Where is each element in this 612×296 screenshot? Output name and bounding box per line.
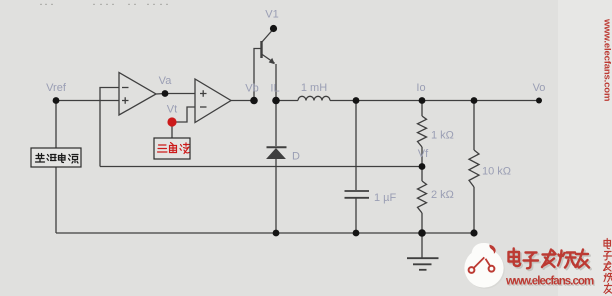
wire op-amp2 output to Vb node [231,100,254,102]
node Va [162,90,169,97]
wire 10k resistor to bottom rail [473,187,475,233]
watermark vertical CJK right edge 电子发烧友 [604,239,612,294]
wire cap column lower [355,199,357,234]
wire feedback riser to inverting input [100,88,119,167]
wire emitter down to IL node [275,64,277,101]
wire Vref to op-amp + input [56,100,119,102]
svg-text:1 kΩ: 1 kΩ [431,130,454,142]
wire Vb node up to transistor base [254,49,261,101]
node diode bottom rail [273,230,280,237]
wire feedback rail Vf to op-amp [100,166,422,168]
node V1 collector [270,25,277,32]
watermark flame tip [472,243,497,255]
resistor 1 kohm zigzag [418,116,427,147]
watermark logo circle [464,243,504,289]
triangle-wave box 三角波 [154,138,190,159]
wire Vref node down to reference box [55,101,57,149]
ground symbol [407,258,439,270]
terminal Vo [536,98,542,104]
node Vb [250,97,258,105]
wire Vt node down to triangle-wave box [171,124,173,138]
svg-text:Vf: Vf [418,148,429,160]
svg-text:Va: Va [159,75,173,87]
svg-text:1 µF: 1 µF [374,192,397,204]
svg-text:V1: V1 [265,9,278,21]
node cap top [353,97,360,104]
node IL [272,97,280,105]
node ground rail [418,229,426,237]
watermark circuit trace [469,257,495,273]
wire 1k resistor to Vf node [421,147,423,167]
capacitor C 1uF plates [345,191,370,198]
wire op-amp1 output to Va and op-amp2 [156,93,195,96]
svg-text:www.elecfans.com: www.elecfans.com [505,276,594,288]
wire Vt to op-amp2 inverting input [176,107,195,122]
wire collector to V1 node [262,30,273,43]
resistor 10 kohm zigzag [469,150,479,187]
wire bottom ground rail [56,232,474,234]
svg-text:Vref: Vref [46,82,67,94]
wire node to 10k resistor [473,101,475,151]
svg-text:D: D [292,151,300,163]
node Vf [419,163,426,170]
node Vt (red, triangle wave input) [167,117,176,126]
svg-text:10 kΩ: 10 kΩ [482,166,511,178]
wire IL node to inductor [276,100,298,102]
node cap bottom rail [353,230,360,237]
transistor V1 body [262,41,275,63]
svg-text:Vo: Vo [533,82,546,94]
wire inductor to Io and Vo [330,100,539,102]
svg-text:Vb: Vb [245,83,258,95]
wire IL node down to diode [275,101,277,147]
wire bottom rail to ground symbol [421,233,423,258]
dust marks top [40,4,168,5]
svg-text:www.elecfans.com: www.elecfans.com [602,18,612,101]
wire diode anode down to bottom rail [275,158,277,233]
op-amp U2 (PWM comparator) [195,79,231,123]
wire cap column upper [355,101,357,191]
wire Vf node to 2k resistor [421,167,423,182]
node R10k top [471,97,478,104]
inductor L 1 mH [298,96,330,100]
svg-text:IL: IL [270,83,279,95]
diode D [267,147,287,158]
wire 2k resistor to bottom rail [421,213,423,233]
svg-text:Vt: Vt [167,104,177,116]
svg-text:Io: Io [416,82,425,94]
node Vref [53,97,60,104]
wire reference box to bottom rail [55,167,57,233]
op-amp U1 (error amplifier) [119,73,156,116]
watermark text 电子发烧友 [510,250,590,270]
text 三角波 in triangle-wave box [158,143,190,154]
node R10k bottom rail [470,229,477,236]
reference supply box 基准电源 [31,148,81,167]
svg-text:2 kΩ: 2 kΩ [431,189,454,201]
resistor 2 kohm zigzag [418,181,427,213]
svg-text:1 mH: 1 mH [301,82,327,94]
text 基准电源 in reference box [36,154,79,164]
node Io [419,97,426,104]
wire Io node to 1k resistor [421,101,423,117]
